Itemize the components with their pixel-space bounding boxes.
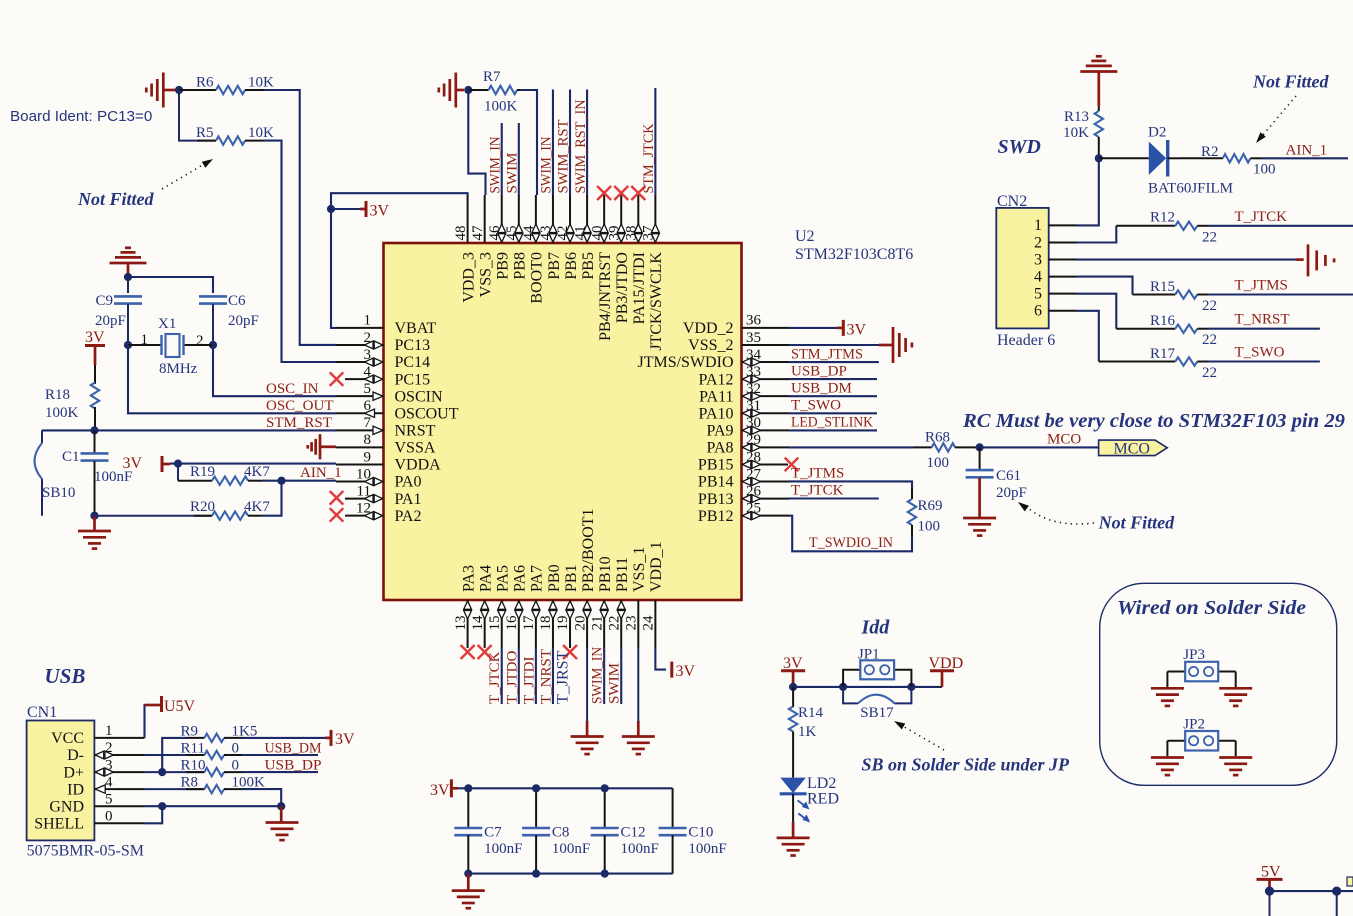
power 3V (R18) (85, 329, 105, 365)
svg-text:36: 36 (746, 313, 762, 329)
U2 right pin names (637, 320, 733, 525)
svg-text:U5V: U5V (164, 698, 196, 715)
no-connect X pin13 (461, 645, 475, 659)
U2 bottom pin arrow glyphs (464, 601, 625, 619)
svg-text:PB9: PB9 (495, 252, 512, 280)
power 3V (VDDA) (122, 455, 170, 472)
net label T_SWO (SWD) (1235, 345, 1285, 361)
svg-text:4K7: 4K7 (244, 464, 270, 480)
svg-text:1K: 1K (798, 724, 817, 740)
wire SWIM_RST (pin42) (569, 90, 571, 196)
U2 top pin stubs (468, 195, 656, 243)
note Not Fitted (R5/R6) (77, 189, 154, 209)
wire T_NRST (pin18) (552, 648, 554, 704)
capacitor C61 20pF (966, 447, 1027, 518)
net label T_NRST (pin18) (538, 649, 554, 704)
svg-text:JP1: JP1 (858, 647, 880, 663)
wire SHELL to GND (145, 806, 163, 823)
svg-text:1: 1 (1034, 217, 1042, 234)
svg-text:USB: USB (45, 664, 86, 688)
node D+ branch (158, 768, 166, 776)
svg-text:3V: 3V (370, 203, 390, 220)
svg-text:D-: D- (67, 747, 84, 764)
svg-text:100: 100 (927, 455, 950, 471)
svg-text:C1: C1 (62, 449, 80, 465)
svg-text:8MHz: 8MHz (159, 361, 198, 377)
net label STM_RST (266, 415, 332, 431)
U2 right pin arrow glyphs (742, 358, 760, 519)
svg-text:5: 5 (1034, 285, 1042, 302)
U2 bottom pin stubs (468, 600, 656, 648)
svg-text:Idd: Idd (861, 617, 891, 639)
wire MCO (980, 446, 1099, 448)
note SB on Solder Side under JP (862, 755, 1071, 775)
connector CN2 body (996, 193, 1055, 349)
svg-text:T_NRST: T_NRST (1235, 312, 1290, 328)
net label T_JTCK (pin26) (791, 483, 844, 499)
svg-text:VDD_2: VDD_2 (683, 320, 734, 337)
net label USB_DM (pin32) (791, 380, 852, 396)
net label MCO (1047, 432, 1081, 448)
svg-text:U2: U2 (795, 228, 815, 245)
ground (top-left, sideways) (146, 73, 175, 108)
resistor R17 22 (1099, 346, 1217, 381)
resistor R13 10K (1063, 106, 1103, 158)
note RC Must be very close to STM32F103 pin 29 (962, 411, 1345, 432)
svg-text:R5: R5 (196, 125, 214, 141)
note Not Fitted (R2) (1252, 72, 1329, 92)
no-connect X pin4 PC15 (330, 372, 344, 386)
text Board Ident: PC13=0 (10, 108, 152, 125)
svg-text:SWIM_IN: SWIM_IN (487, 136, 503, 193)
svg-text:3V: 3V (122, 455, 142, 472)
net label T_JTDO (pin16) (504, 651, 520, 704)
svg-text:PA11: PA11 (699, 388, 733, 405)
svg-text:AIN_1: AIN_1 (1286, 143, 1328, 159)
svg-text:20pF: 20pF (95, 313, 126, 329)
svg-text:R69: R69 (918, 498, 943, 514)
net label USB_DP (pin33) (791, 363, 847, 379)
ground (JP2 right) (1219, 758, 1252, 776)
wire R8 to GND rail (242, 789, 281, 806)
wire CN2-4 to R15 (1077, 277, 1133, 295)
power 3V (R9) (242, 730, 355, 748)
wire PA8 to R68 (pin29) (789, 446, 913, 448)
svg-text:48: 48 (453, 226, 469, 241)
resistor R8 100K (ID) (145, 775, 266, 794)
svg-text:PC15: PC15 (395, 371, 431, 388)
U2 left pin numbers (356, 313, 372, 517)
svg-text:100: 100 (918, 519, 941, 535)
capacitor C7 100nF (454, 788, 522, 873)
svg-text:USB_DM: USB_DM (791, 380, 852, 396)
ground (JP3 left) (1151, 688, 1184, 706)
svg-text:1: 1 (364, 313, 372, 329)
dotted arrow to SB17 (894, 721, 944, 750)
svg-text:35: 35 (746, 330, 761, 346)
svg-text:24: 24 (641, 615, 657, 631)
node R13/D2/CN2-1 (1095, 154, 1103, 162)
svg-text:2: 2 (196, 333, 204, 349)
svg-text:PB8: PB8 (512, 252, 529, 280)
net label OSC_OUT (266, 398, 334, 414)
svg-text:PA7: PA7 (529, 565, 546, 592)
svg-text:PA1: PA1 (395, 491, 422, 508)
wire SWIM_IN (pin46) (501, 123, 503, 195)
svg-text:PA3: PA3 (460, 565, 477, 592)
svg-text:Wired on Solder Side: Wired on Solder Side (1117, 597, 1306, 619)
dotted arrow to R2 (1256, 96, 1296, 143)
svg-text:RC Must be very close to STM32: RC Must be very close to STM32F103 pin 2… (962, 411, 1345, 432)
wire T_JTCK (pin15) (501, 648, 503, 704)
svg-text:22: 22 (1202, 229, 1217, 245)
wire R7 ground to VSS_3 (pin47) (468, 90, 485, 195)
svg-text:100nF: 100nF (484, 841, 522, 857)
ground (C61) (963, 518, 996, 536)
jumper JP1 (843, 647, 911, 687)
wire R5 to PC14 (pin3) (264, 141, 336, 362)
svg-text:ID: ID (67, 781, 84, 798)
svg-text:100K: 100K (45, 405, 79, 421)
wire T_JTDI (pin17) (535, 648, 537, 704)
svg-text:10K: 10K (1063, 125, 1089, 141)
svg-text:C6: C6 (228, 293, 246, 309)
wire GND rail (145, 805, 282, 807)
no-connect X pin12 PA2 (330, 508, 344, 522)
U2 top pin numbers (453, 225, 657, 241)
section title Idd (861, 617, 891, 639)
wire T_JTMS (pin27) to R69 (789, 481, 912, 488)
svg-text:4K7: 4K7 (244, 499, 270, 515)
wire USB_DM (pin32) (789, 395, 877, 397)
svg-text:PC13: PC13 (395, 337, 431, 354)
svg-text:3V: 3V (847, 321, 867, 338)
resistor R18 100K (45, 365, 99, 427)
svg-text:SWIM: SWIM (607, 663, 623, 704)
svg-text:Not Fitted: Not Fitted (1098, 513, 1175, 533)
wire CN2-3 to ground (1077, 259, 1304, 261)
node 3V/R14 (789, 683, 797, 691)
svg-text:D+: D+ (63, 764, 84, 781)
wire C9 to X1 (127, 304, 129, 345)
svg-text:VDD_1: VDD_1 (648, 541, 665, 592)
svg-text:3: 3 (1034, 251, 1042, 268)
svg-text:PB13: PB13 (698, 491, 734, 508)
svg-text:Board Ident: PC13=0: Board Ident: PC13=0 (10, 108, 152, 125)
dotted arrow to C61 (1018, 502, 1094, 524)
node VDDA branch (174, 460, 182, 468)
svg-text:USB_DM: USB_DM (265, 741, 322, 757)
wire SWIM (pin22) (620, 648, 622, 704)
svg-text:0: 0 (232, 758, 240, 774)
U2 right pin numbers (746, 313, 762, 517)
svg-text:5: 5 (364, 381, 372, 397)
wire VSS_1 to ground (pin23) (637, 648, 639, 737)
svg-text:PA0: PA0 (395, 474, 422, 491)
net label T_SWDIO_IN (809, 535, 893, 551)
node R8/GND (277, 802, 285, 810)
wire T_JTDO (pin16) (518, 648, 520, 704)
svg-text:1: 1 (105, 723, 113, 739)
svg-text:100nF: 100nF (688, 841, 726, 857)
wire USB_DP (pin33) (789, 378, 877, 380)
ground (USB) (266, 806, 299, 840)
svg-text:PB12: PB12 (698, 508, 734, 525)
svg-text:STM32F103C8T6: STM32F103C8T6 (795, 246, 913, 263)
ground (VSSA pin8, sideways) (308, 434, 336, 459)
svg-text:8: 8 (364, 432, 372, 448)
svg-text:10K: 10K (248, 125, 274, 141)
svg-text:0: 0 (105, 809, 113, 825)
svg-text:R6: R6 (196, 75, 214, 91)
resistor R19 4K7 (178, 464, 270, 485)
ground (LED) (777, 822, 810, 856)
wire OSC_IN (C6 to pin5) (213, 304, 336, 396)
note Not Fitted (C61) (1098, 513, 1175, 533)
wire gnd rail C9-C6 (128, 277, 213, 293)
svg-text:0: 0 (232, 741, 240, 757)
wire PB2/BOOT1 to ground (pin20) (586, 648, 588, 737)
wire STM_JTMS (pin34) (789, 361, 879, 363)
svg-text:3V: 3V (430, 782, 450, 799)
svg-text:R12: R12 (1150, 210, 1175, 226)
svg-text:PB3/JTDO: PB3/JTDO (614, 252, 631, 323)
no-connect X pin28 PB15 (785, 458, 799, 472)
svg-text:T_JTCK: T_JTCK (487, 651, 503, 704)
net label SWIM (pin45) (505, 153, 521, 194)
svg-text:SB on Solder Side under JP: SB on Solder Side under JP (862, 755, 1071, 775)
svg-text:R11: R11 (181, 741, 205, 757)
svg-text:T_JRST: T_JRST (555, 650, 572, 704)
svg-text:GND: GND (49, 798, 84, 815)
svg-text:VDD_3: VDD_3 (460, 252, 477, 303)
ground (JP2 left) (1151, 758, 1184, 776)
resistor R7 100K (468, 69, 520, 115)
svg-text:VSS_2: VSS_2 (688, 337, 733, 354)
resistor R20 4K7 (95, 481, 282, 520)
resistor R15 22 (1133, 279, 1218, 314)
IC U2 STM32F103C8T6 body (384, 243, 742, 600)
port MCO tag (1099, 440, 1168, 457)
svg-text:PB11: PB11 (614, 557, 631, 592)
wire CN2-5 to R16 (1077, 294, 1116, 329)
svg-text:OSC_OUT: OSC_OUT (266, 398, 334, 414)
node R7 junction (464, 86, 472, 94)
svg-text:JTMS/SWDIO: JTMS/SWDIO (637, 354, 733, 371)
resistor R68 100 (913, 429, 980, 471)
node 5V right (1332, 887, 1341, 896)
svg-text:C7: C7 (484, 825, 502, 841)
CN2 pin stubs (1049, 225, 1077, 310)
svg-text:SWIM_RST_IN: SWIM_RST_IN (573, 99, 589, 193)
section title SWD (998, 136, 1041, 158)
svg-text:T_SWO: T_SWO (1235, 345, 1285, 361)
power 3V (VDD_2 pin36) (789, 320, 867, 338)
svg-text:OSCIN: OSCIN (395, 388, 443, 405)
svg-text:SHELL: SHELL (34, 816, 84, 833)
resistor R14 1K (789, 687, 824, 778)
net label SWIM_IN (pin43) (539, 136, 555, 193)
svg-text:PB14: PB14 (698, 474, 734, 491)
svg-text:PA9: PA9 (707, 423, 734, 440)
svg-text:OSC_IN: OSC_IN (266, 381, 319, 397)
wire CN2-2 to R12 (1077, 226, 1116, 243)
node C9 top (124, 273, 132, 281)
svg-text:PC14: PC14 (395, 354, 431, 371)
wire 3V to VDD_3 (pin48) (331, 193, 468, 209)
svg-text:STM_RST: STM_RST (266, 415, 332, 431)
svg-text:R20: R20 (190, 499, 215, 515)
svg-text:100K: 100K (484, 99, 518, 115)
U2 part number STM32F103C8T6 (795, 246, 913, 263)
svg-text:2: 2 (1034, 234, 1042, 251)
CN2 pin numbers (1034, 217, 1042, 319)
section title USB (45, 664, 86, 688)
wire CN2-1 to D2 node (1077, 158, 1099, 225)
svg-text:LD2: LD2 (807, 775, 836, 792)
svg-text:R10: R10 (181, 758, 206, 774)
svg-text:R14: R14 (798, 705, 824, 721)
svg-text:SB10: SB10 (42, 485, 75, 501)
net label STM_JTMS (791, 346, 863, 362)
svg-text:JTCK/SWCLK: JTCK/SWCLK (648, 252, 665, 351)
svg-text:20pF: 20pF (228, 313, 259, 329)
resistor R11 0 (D-) (145, 741, 243, 760)
wire T_SWDIO_IN (pin25) (789, 516, 912, 552)
CN1 pin stubs (94, 738, 144, 823)
svg-text:10K: 10K (248, 75, 274, 91)
svg-text:R2: R2 (1201, 144, 1219, 160)
node X1 pin2 (209, 341, 217, 349)
svg-text:R18: R18 (45, 387, 70, 403)
svg-text:PB2/BOOT1: PB2/BOOT1 (580, 508, 597, 592)
connector CN1 body (27, 704, 144, 860)
ground (VSS_2 pin35, sideways) (789, 327, 912, 363)
svg-text:R16: R16 (1150, 313, 1176, 329)
net label STM_JTCK (pin37) (641, 123, 657, 193)
resistor R9 1K5 (D+ pullup) (162, 723, 257, 772)
svg-text:OSCOUT: OSCOUT (395, 405, 459, 422)
wire T_JTCK (pin26) (789, 497, 879, 499)
net label T_JRST (pin19) (555, 650, 572, 704)
power 5V (1257, 864, 1283, 892)
svg-text:STM_JTMS: STM_JTMS (791, 346, 863, 362)
svg-text:VSSA: VSSA (395, 440, 436, 457)
U2 left pin arrow glyphs (365, 341, 384, 520)
wire 3V to JP1/VDD (793, 686, 942, 688)
svg-text:RED: RED (807, 790, 839, 807)
net label T_JTCK (pin15) (487, 651, 503, 704)
U2 designator (795, 228, 815, 245)
svg-text:5: 5 (105, 791, 113, 807)
U2 left pin stubs (336, 328, 384, 516)
resistor R5 10K (179, 90, 274, 145)
svg-text:BOOT0: BOOT0 (529, 252, 546, 304)
svg-text:VDDA: VDDA (395, 457, 442, 474)
svg-text:USB_DP: USB_DP (265, 758, 322, 774)
wire OSC_OUT (C9 to pin6) (128, 345, 336, 413)
svg-text:22: 22 (1202, 332, 1217, 348)
svg-text:R8: R8 (181, 775, 199, 791)
svg-text:R15: R15 (1150, 279, 1175, 295)
power U5V (145, 696, 196, 738)
ground (C7 rail) (452, 874, 485, 909)
svg-text:PA8: PA8 (707, 440, 734, 457)
svg-text:47: 47 (470, 225, 486, 241)
svg-text:SWIM_IN: SWIM_IN (539, 136, 555, 193)
capacitor C6 20pF (199, 293, 259, 329)
svg-text:23: 23 (624, 616, 640, 631)
resistor R6 10K (179, 75, 274, 95)
wire 5V rail (1270, 891, 1353, 916)
node 3V VBAT (327, 205, 335, 213)
U2 left pin names (395, 320, 459, 525)
partial tag (right edge) (1347, 877, 1353, 886)
note box Wired on Solder Side (1100, 583, 1337, 785)
svg-text:3V: 3V (676, 663, 696, 680)
svg-text:PB1: PB1 (563, 564, 580, 592)
wire SWIM_IN (pin21) (603, 648, 605, 704)
capacitor C8 100nF (522, 788, 590, 873)
svg-text:7: 7 (364, 415, 372, 431)
U2 top pin names (460, 252, 665, 351)
CN1 pin arrow glyphs (95, 751, 113, 793)
resistor R2 100 (1180, 144, 1276, 177)
rail junction dots (caps) (464, 784, 609, 878)
svg-text:R9: R9 (181, 723, 199, 739)
svg-text:4: 4 (1034, 268, 1042, 285)
net label T_JTCK (SWD) (1235, 209, 1288, 225)
svg-text:T_JTCK: T_JTCK (791, 483, 844, 499)
svg-text:SWIM_RST: SWIM_RST (556, 120, 572, 194)
power 3V (VBAT/VDD_3) (360, 201, 390, 220)
svg-text:T_JTDO: T_JTDO (504, 651, 520, 704)
wire USB_DP / label (242, 758, 322, 774)
svg-text:LED_STLINK: LED_STLINK (791, 415, 873, 431)
wire T_JTMS (R15) (1208, 293, 1353, 295)
svg-text:CN2: CN2 (997, 193, 1027, 210)
wire R7 to BOOT0 (pin44) (520, 90, 537, 195)
svg-text:C61: C61 (996, 468, 1021, 484)
wire SWIM_RST_IN (pin41) (586, 90, 588, 196)
svg-text:SWIM_IN: SWIM_IN (590, 647, 606, 704)
jumper JP2 (1167, 716, 1235, 756)
svg-text:PB6: PB6 (563, 252, 580, 280)
svg-text:MCO: MCO (1114, 440, 1150, 457)
svg-text:SB17: SB17 (860, 705, 894, 721)
svg-text:T_SWO: T_SWO (791, 398, 841, 414)
svg-text:AIN_1: AIN_1 (300, 465, 342, 481)
net label AIN_1 (SWD) (1286, 143, 1328, 159)
svg-text:JP3: JP3 (1183, 647, 1205, 663)
wire AIN_1 to PA0 (pin10) (262, 480, 336, 482)
svg-text:R13: R13 (1064, 109, 1089, 125)
svg-text:R17: R17 (1150, 346, 1176, 362)
net label LED_STLINK (791, 415, 873, 431)
wire USB_DM / label (242, 741, 322, 757)
no-connect X pin38 (631, 186, 645, 200)
net label SWIM_RST_IN (pin41) (573, 99, 589, 193)
wire STM_RST (pin7) (42, 429, 336, 431)
svg-text:R19: R19 (190, 464, 215, 480)
svg-text:USB_DP: USB_DP (791, 363, 847, 379)
no-connect X pin11 PA1 (330, 491, 344, 505)
svg-text:100: 100 (1253, 161, 1276, 177)
node C1 bottom / PA2 line (90, 512, 98, 520)
solder bridge SB17 (843, 687, 911, 721)
node GND/SHELL (158, 802, 166, 810)
svg-text:PA10: PA10 (699, 405, 734, 422)
